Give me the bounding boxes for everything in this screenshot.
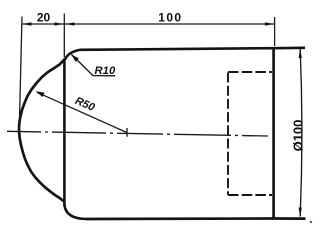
extension line shared (left face) <box>63 14 65 58</box>
dimension line 100 <box>65 23 274 25</box>
arrowhead R10 <box>71 54 79 62</box>
svg-text:20: 20 <box>37 11 51 25</box>
body outline right edge <box>272 48 275 218</box>
arrow left of dim 20 <box>22 22 32 25</box>
arrow bottom of dia 100 <box>299 208 302 218</box>
arrow right of dim 20 <box>55 22 65 25</box>
svg-text:100: 100 <box>158 11 182 25</box>
fillet bottom-left <box>64 205 87 220</box>
hidden hole left edge (dashed) <box>227 73 229 196</box>
hidden hole top edge (dashed) <box>228 71 272 73</box>
center tick R50 <box>126 128 128 137</box>
fillet R10 top-left <box>65 50 81 59</box>
body outline top edge <box>80 48 305 50</box>
hidden hole bottom edge (dashed) <box>228 194 272 196</box>
centerline (dash-dot axis) <box>7 131 268 136</box>
scan speck bottom right <box>310 221 312 223</box>
body outline bottom edge <box>86 217 306 220</box>
dimension line diameter 100 <box>300 49 302 217</box>
svg-text:Ø100: Ø100 <box>291 120 306 152</box>
extension line left of dim 20 <box>20 17 23 120</box>
arrow left of dim 100 <box>65 22 75 25</box>
radius line R50 <box>37 92 127 132</box>
leader line R10 <box>72 55 116 76</box>
arrow right of dim 100 <box>265 22 275 25</box>
body left edge (tangency line) <box>63 59 66 207</box>
svg-text:R10: R10 <box>95 65 116 77</box>
extension line right of dim 100 <box>274 17 276 46</box>
arrow top of dia 100 <box>299 48 302 58</box>
dimension line 20 <box>22 23 64 25</box>
svg-text:R50: R50 <box>73 95 97 114</box>
arrowhead R50 <box>36 91 45 97</box>
spherical end arc R50 <box>19 59 66 201</box>
